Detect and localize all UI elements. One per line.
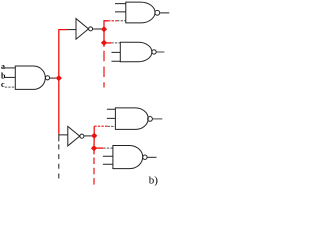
inverter U1 triangle [76, 19, 89, 40]
node J0 junction [56, 76, 61, 81]
wire input a [5, 67, 16, 69]
wire red solid stub below J1b [103, 43, 105, 47]
svg-text:b: b [1, 71, 6, 80]
nand gate G1 inputs stubs [115, 4, 126, 12]
nand gate G1 body [126, 2, 155, 23]
nand gate G3 inputs stubs [107, 109, 116, 118]
nand gate G3 body [115, 108, 148, 129]
node J1 junction [102, 27, 107, 32]
wire red J2 to J3 [93, 136, 95, 148]
svg-text:c: c [1, 80, 5, 89]
nand gate G4 bubble [143, 155, 147, 159]
wire G3 input3 dark part [108, 125, 116, 127]
nand gate G1 bubble [155, 10, 160, 15]
wire red J1 to J1b [103, 29, 105, 43]
wire red J0 up to inverter U1 input [59, 30, 68, 79]
nand gate G3 bubble [148, 117, 153, 122]
svg-text:a: a [1, 62, 5, 71]
node J3 junction [92, 146, 97, 151]
wire G1 input3 dark part [117, 20, 126, 22]
nand gate G2 inputs stubs [112, 52, 121, 61]
wire G0 output [50, 77, 57, 79]
nand gate G2 bubble [152, 50, 156, 54]
node J2 junction [92, 133, 97, 138]
wire red J2 up to corner [93, 126, 95, 136]
wire G4 input1 dark part [103, 147, 113, 149]
svg-text:b): b) [149, 174, 159, 186]
wire U2 output [84, 135, 92, 137]
wire input c [5, 86, 16, 88]
wire input b [5, 76, 16, 78]
wire red dashed below J3 [93, 158, 95, 186]
wire G3 output [153, 118, 163, 120]
nand gate G0 bubble [45, 76, 49, 80]
wire black solid below U2 input [58, 135, 60, 142]
nand gate G2 body [120, 42, 152, 61]
wire black dashed below U2 input [58, 144, 60, 178]
inverter U1 bubble [89, 27, 93, 31]
wire U2 input black [59, 134, 68, 135]
nand gate G0 body [15, 66, 45, 89]
wire G4 output [147, 156, 156, 158]
wire red dashed below J1b [103, 51, 105, 88]
inverter U2 bubble [80, 134, 84, 138]
wire red J3 right to G4 input1 [94, 147, 103, 149]
wire G1 output [160, 12, 170, 14]
wire red solid stub below J3 [93, 148, 95, 154]
wire G2 output [156, 51, 164, 53]
wire G2 input1 dark part [111, 42, 120, 44]
wire red dashed to G3 input3 [94, 125, 107, 127]
wire red J1 up and right to G1 input3 [104, 21, 108, 29]
wire red J1b right to G2 input1 [104, 42, 111, 44]
nand gate G4 body [113, 146, 143, 169]
nand gate G4 inputs stubs [103, 156, 113, 164]
node J1b junction [102, 40, 107, 45]
wire U1 input black part [68, 29, 77, 31]
inverter U2 triangle [68, 126, 80, 145]
wire U1 output [93, 28, 102, 30]
wire red J0 down to lower inverter corner [58, 81, 60, 134]
